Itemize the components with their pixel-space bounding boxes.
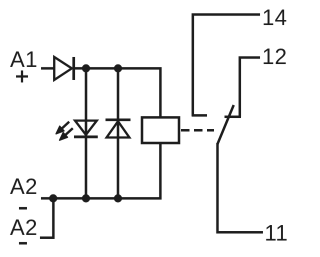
junction top of LED branch [82,64,90,72]
wire contact 11 (common) [217,143,263,232]
switch armature (changeover moving contact) [217,105,233,144]
svg-text:A2: A2 [10,215,38,240]
wire top bus from diode to coil pin [75,68,160,117]
terminal label A2 upper with polarity - [10,174,38,208]
diode D1 series [54,57,74,80]
junction bottom of LED branch [82,194,90,202]
wire contact 14 (NO fixed contact) [192,15,260,117]
terminal label A2 lower with polarity - [10,215,38,243]
wire bottom bus to coil pin [41,143,160,198]
wire A2 jumper to lower A2 terminal [40,198,53,237]
wire freewheel-diode branch vertical [117,68,120,198]
mechanical link (dashed) from coil to contact armature [181,129,214,132]
LED indicator (cathode down, with emission arrows) [56,121,98,141]
svg-text:11: 11 [264,221,288,246]
wire LED branch vertical [85,68,88,198]
junction top of freewheel-diode branch [114,64,122,72]
svg-text:A1: A1 [10,47,38,72]
freewheel diode D2 (cathode up) [105,120,130,138]
wire contact 12 (NC fixed contact with bar) [225,58,261,117]
wire A1 terminal stub [41,67,54,70]
svg-text:12: 12 [262,44,287,69]
terminal label A1 with polarity + [10,47,38,83]
relay coil K1 [142,117,179,143]
junction A2 jumper node [49,194,57,202]
junction bottom of freewheel-diode branch [114,194,122,202]
svg-text:A2: A2 [10,174,38,199]
svg-text:14: 14 [262,5,287,30]
